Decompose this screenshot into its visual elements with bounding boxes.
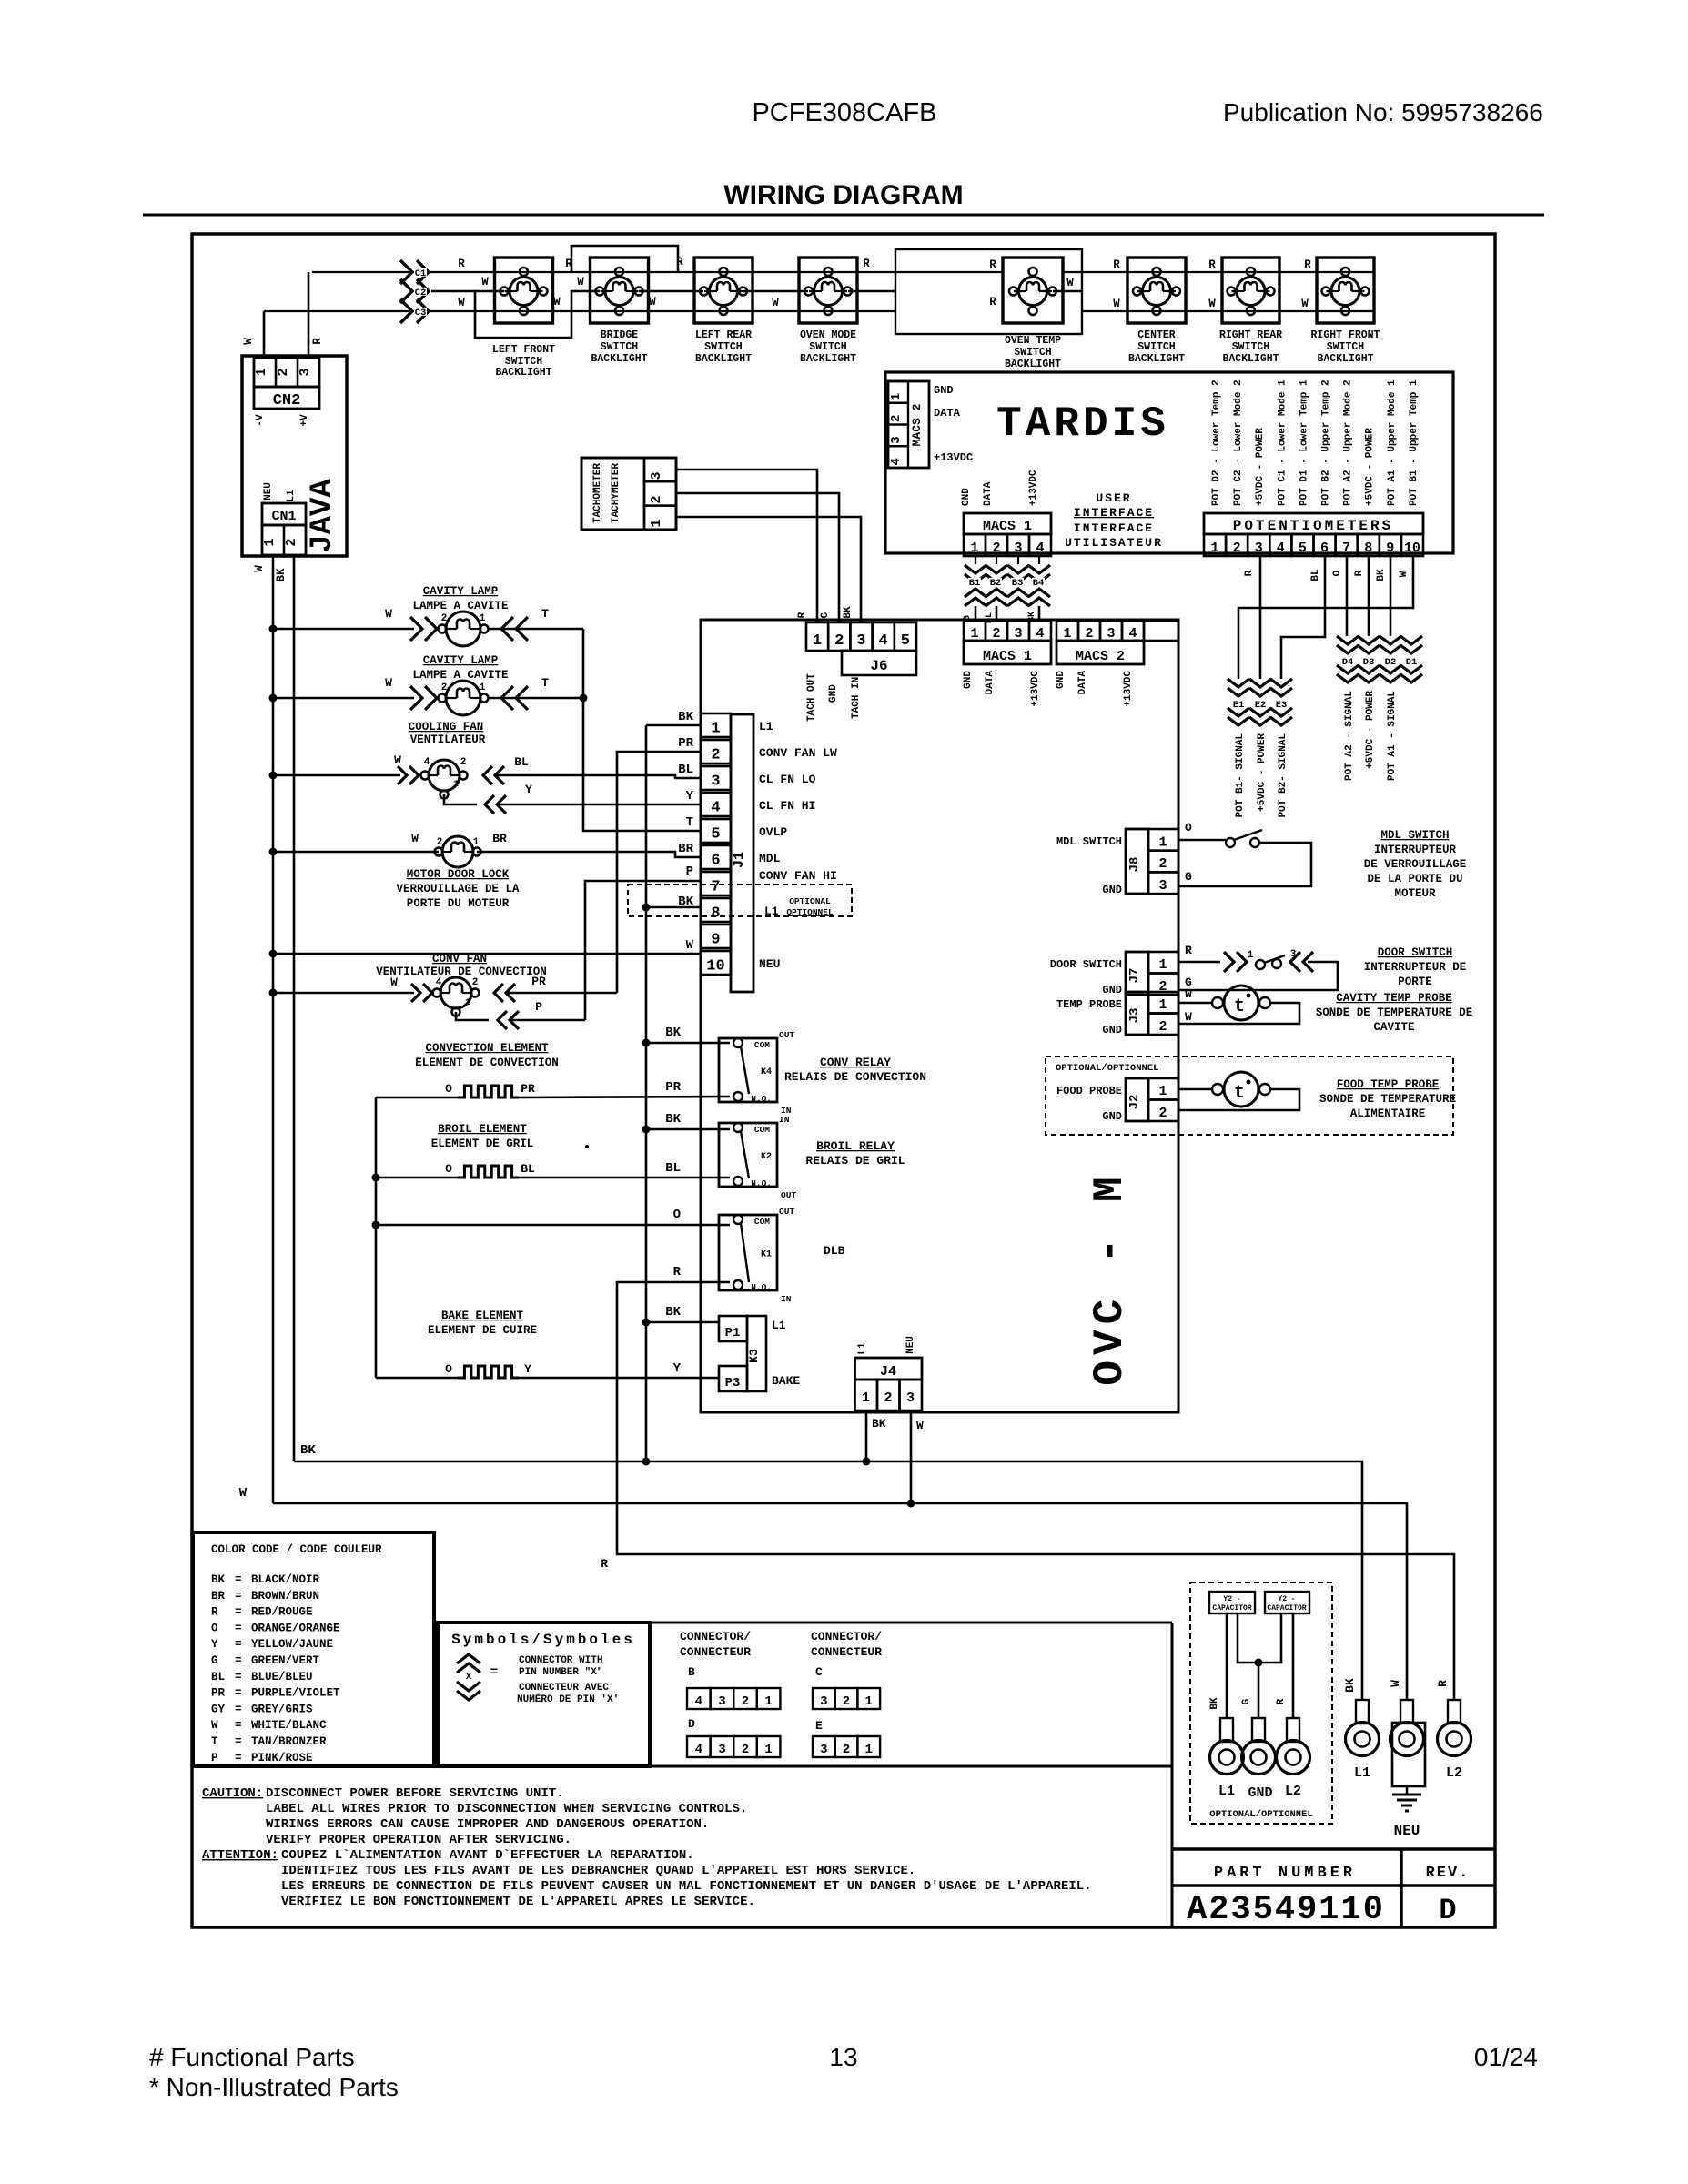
svg-text:COUPEZ L`ALIMENTATION AVANT D`: COUPEZ L`ALIMENTATION AVANT D`EFFECTUER … — [281, 1848, 694, 1863]
svg-text:T: T — [211, 1735, 218, 1748]
svg-text:1: 1 — [764, 1743, 772, 1757]
svg-text:2: 2 — [1085, 626, 1093, 642]
wire C2 tail — [431, 290, 475, 293]
svg-text:1: 1 — [254, 368, 269, 376]
svg-text:VENTILATEUR: VENTILATEUR — [410, 733, 486, 746]
color code box — [193, 1532, 434, 1766]
svg-text:R: R — [989, 258, 996, 271]
svg-text:C1: C1 — [415, 268, 427, 279]
svg-text:3: 3 — [298, 368, 313, 376]
svg-text:1: 1 — [480, 613, 486, 624]
part number box — [1172, 1847, 1495, 1851]
svg-text:N.O.: N.O. — [751, 1282, 772, 1292]
svg-text:E: E — [815, 1719, 823, 1733]
svg-text:BK: BK — [1343, 1678, 1357, 1693]
svg-text:R: R — [1113, 258, 1120, 271]
svg-text:E2: E2 — [1255, 700, 1267, 711]
svg-text:1: 1 — [764, 1694, 772, 1709]
svg-text:BACKLIGHT: BACKLIGHT — [695, 353, 752, 365]
svg-text:O: O — [445, 1162, 452, 1176]
svg-text:+5VDC - POWER: +5VDC - POWER — [1365, 691, 1376, 769]
svg-text:K4: K4 — [761, 1067, 772, 1077]
svg-text:P: P — [686, 864, 693, 879]
wire loop around oven temp switch — [895, 249, 1082, 334]
svg-text:R: R — [1244, 570, 1255, 576]
svg-text:R: R — [311, 338, 324, 345]
svg-text:=: = — [235, 1606, 242, 1619]
capacitor wires — [1226, 1613, 1228, 1718]
svg-text:CONV FAN HI: CONV FAN HI — [759, 869, 837, 883]
svg-text:PIN NUMBER "X": PIN NUMBER "X" — [519, 1667, 602, 1678]
wire T net lamps to J1 pin5 — [582, 629, 585, 698]
svg-text:W: W — [577, 276, 584, 288]
svg-text:1: 1 — [864, 1743, 872, 1757]
svg-text:CL FN LO: CL FN LO — [759, 773, 816, 786]
Y2 capacitor 2 — [1265, 1592, 1309, 1613]
svg-text:NEU: NEU — [263, 482, 274, 500]
svg-text:+13VDC: +13VDC — [934, 451, 973, 464]
svg-text:R: R — [565, 258, 572, 270]
svg-text:4: 4 — [1036, 541, 1044, 556]
svg-text:DLB: DLB — [824, 1244, 845, 1258]
svg-text:+13VDC: +13VDC — [1030, 671, 1041, 707]
connector J3 — [1126, 992, 1148, 1035]
svg-text:A23549110: A23549110 — [1187, 1891, 1385, 1929]
svg-text:DATA: DATA — [985, 671, 996, 695]
svg-text:DOOR SWITCH: DOOR SWITCH — [1050, 958, 1122, 971]
svg-text:1: 1 — [480, 682, 486, 693]
svg-text:W: W — [1113, 298, 1120, 310]
svg-text:BL: BL — [985, 612, 995, 623]
broil relay K2 — [719, 1123, 777, 1187]
svg-text:SWITCH: SWITCH — [809, 341, 847, 353]
svg-text:GND: GND — [1102, 1110, 1122, 1123]
connector J2 — [1126, 1078, 1148, 1121]
connector J7 — [1126, 952, 1148, 995]
svg-text:+5VDC - POWER: +5VDC - POWER — [1255, 428, 1266, 506]
tachometer — [581, 458, 676, 530]
svg-text:2: 2 — [460, 757, 467, 768]
svg-text:1: 1 — [711, 721, 720, 738]
svg-text:=: = — [235, 1703, 242, 1715]
svg-text:WHITE/BLANC: WHITE/BLANC — [251, 1719, 327, 1732]
right rear switch backlight — [1222, 258, 1279, 323]
svg-text:BR: BR — [211, 1590, 226, 1603]
svg-text:W: W — [772, 297, 779, 309]
svg-text:W: W — [649, 296, 656, 308]
svg-text:OVEN MODE: OVEN MODE — [800, 329, 856, 341]
svg-text:SWITCH: SWITCH — [1327, 341, 1365, 353]
svg-text:2: 2 — [1233, 541, 1241, 556]
svg-text:2: 2 — [437, 837, 443, 848]
svg-text:3: 3 — [856, 632, 865, 650]
svg-text:BK: BK — [665, 1026, 681, 1040]
svg-text:2: 2 — [884, 1390, 892, 1406]
terminal L2 main — [1448, 1700, 1461, 1724]
svg-text:USER: USER — [1096, 491, 1131, 505]
svg-text:B4: B4 — [1033, 578, 1045, 589]
svg-text:MACS 1: MACS 1 — [983, 649, 1032, 664]
svg-text:JAVA: JAVA — [306, 479, 340, 553]
svg-text:RELAIS DE GRIL: RELAIS DE GRIL — [805, 1154, 905, 1168]
svg-text:3: 3 — [649, 471, 664, 480]
connector row box — [649, 1623, 652, 1766]
svg-text:6: 6 — [711, 853, 720, 870]
svg-text:1: 1 — [970, 541, 978, 556]
svg-text:INTERRUPTEUR DE: INTERRUPTEUR DE — [1364, 961, 1467, 974]
main diagram border — [192, 234, 1495, 1927]
svg-text:R: R — [211, 1606, 218, 1619]
svg-text:CL FN HI: CL FN HI — [759, 799, 815, 813]
wire J1 pin1 BK riser — [646, 724, 701, 727]
svg-text:SWITCH: SWITCH — [704, 341, 743, 353]
svg-text:POT B1- SIGNAL: POT B1- SIGNAL — [1235, 733, 1246, 818]
svg-text:5: 5 — [1299, 541, 1307, 556]
svg-text:J7: J7 — [1127, 968, 1142, 984]
svg-text:W: W — [1208, 298, 1216, 310]
wire O to K1 — [372, 1221, 380, 1229]
svg-text:PCFE308CAFB: PCFE308CAFB — [752, 98, 936, 127]
bridge switch backlight — [591, 258, 649, 323]
svg-text:Y: Y — [686, 789, 694, 804]
svg-text:GND: GND — [1102, 984, 1122, 996]
svg-text:D: D — [688, 1717, 695, 1731]
svg-text:2: 2 — [843, 1743, 850, 1757]
wire CN2 pin1 to W bus — [263, 311, 266, 358]
svg-text:COM: COM — [754, 1217, 770, 1227]
svg-text:R: R — [863, 258, 870, 270]
svg-text:O: O — [1332, 570, 1343, 576]
svg-text:SWITCH: SWITCH — [601, 341, 639, 353]
svg-text:=: = — [235, 1752, 242, 1764]
svg-text:C3: C3 — [415, 308, 427, 318]
svg-text:=: = — [235, 1638, 242, 1651]
svg-text:K3: K3 — [747, 1349, 761, 1363]
svg-text:PR: PR — [665, 1080, 681, 1095]
svg-text:NEU: NEU — [905, 1336, 916, 1354]
svg-text:7: 7 — [1342, 541, 1350, 556]
svg-text:E1: E1 — [1233, 700, 1245, 711]
svg-text:D4: D4 — [1342, 657, 1354, 668]
svg-text:L1: L1 — [1354, 1765, 1370, 1781]
svg-text:YELLOW/JAUNE: YELLOW/JAUNE — [251, 1638, 333, 1651]
svg-text:ORANGE/ORANGE: ORANGE/ORANGE — [251, 1622, 340, 1634]
svg-text:MOTOR DOOR LOCK: MOTOR DOOR LOCK — [407, 868, 510, 881]
wire pot pin3 to E2 — [1259, 556, 1262, 679]
connector symbol legend — [457, 1654, 480, 1673]
svg-text:Publication No: 5995738266: Publication No: 5995738266 — [1223, 98, 1543, 126]
svg-text:BACKLIGHT: BACKLIGHT — [1005, 359, 1061, 370]
svg-text:13: 13 — [829, 2043, 857, 2071]
conv relay K4 — [719, 1038, 777, 1102]
svg-text:1: 1 — [889, 393, 904, 400]
svg-text:O: O — [1185, 821, 1192, 834]
oven temp switch backlight — [1003, 258, 1063, 323]
svg-text:GY: GY — [211, 1703, 226, 1715]
svg-text:GND: GND — [828, 684, 839, 703]
svg-text:J8: J8 — [1127, 857, 1142, 873]
svg-text:CONVECTION ELEMENT: CONVECTION ELEMENT — [425, 1042, 549, 1055]
wire W mid links between switches — [743, 290, 808, 293]
OVC-M board outline — [701, 620, 1178, 1412]
svg-text:FOOD TEMP PROBE: FOOD TEMP PROBE — [1337, 1078, 1440, 1091]
svg-text:2: 2 — [284, 538, 299, 546]
svg-text:3: 3 — [820, 1694, 827, 1709]
svg-text:L1: L1 — [764, 905, 779, 918]
svg-text:1: 1 — [1158, 997, 1167, 1013]
svg-text:BK: BK — [211, 1573, 226, 1586]
wire R from K1 — [617, 1282, 1454, 1700]
svg-text:BACKLIGHT: BACKLIGHT — [1222, 353, 1279, 365]
svg-text:Y: Y — [524, 1362, 531, 1376]
svg-text:WIRINGS ERRORS CAN CAUSE IMPRO: WIRINGS ERRORS CAN CAUSE IMPROPER AND DA… — [266, 1817, 709, 1832]
motor door lock — [269, 848, 278, 856]
svg-text:W: W — [1185, 1010, 1192, 1024]
svg-text:PR: PR — [211, 1687, 226, 1700]
svg-text:3: 3 — [906, 1390, 915, 1406]
svg-text:CONV FAN LW: CONV FAN LW — [759, 746, 837, 760]
svg-text:POT A1 - SIGNAL: POT A1 - SIGNAL — [1387, 691, 1398, 781]
svg-text:MDL SWITCH: MDL SWITCH — [1056, 835, 1122, 848]
terminal L1 optional — [1220, 1718, 1233, 1742]
svg-text:OVLP: OVLP — [759, 825, 787, 839]
TARDIS user interface board — [885, 372, 1453, 553]
svg-text:MDL SWITCH: MDL SWITCH — [1380, 829, 1449, 842]
svg-text:=: = — [235, 1687, 242, 1700]
svg-text:SONDE DE TEMPERATURE DE: SONDE DE TEMPERATURE DE — [1316, 1006, 1473, 1019]
svg-text:RELAIS DE CONVECTION: RELAIS DE CONVECTION — [784, 1070, 926, 1084]
svg-text:BK: BK — [1376, 569, 1387, 581]
svg-text:CAVITY LAMP: CAVITY LAMP — [423, 654, 499, 667]
svg-text:R: R — [458, 258, 465, 270]
svg-text:LEFT FRONT: LEFT FRONT — [492, 344, 555, 356]
svg-text:UTILISATEUR: UTILISATEUR — [1065, 536, 1163, 550]
wire BK to K2 — [642, 1126, 651, 1134]
svg-text:4: 4 — [878, 632, 887, 650]
svg-text:BRIDGE: BRIDGE — [601, 329, 639, 341]
svg-text:CN1: CN1 — [271, 509, 296, 524]
svg-text:R: R — [1436, 1680, 1450, 1687]
svg-text:BL: BL — [211, 1671, 225, 1683]
svg-text:ELEMENT DE CUIRE: ELEMENT DE CUIRE — [428, 1324, 537, 1337]
oven mode switch backlight — [799, 258, 857, 323]
svg-text:3: 3 — [1158, 878, 1167, 894]
svg-text:3: 3 — [820, 1743, 827, 1757]
wire J1 pin10 NEU — [273, 953, 701, 955]
svg-text:GND: GND — [1056, 671, 1066, 689]
svg-text:DATA: DATA — [1077, 671, 1088, 695]
svg-text:2: 2 — [992, 626, 1000, 642]
svg-text:CONNECTOR/: CONNECTOR/ — [680, 1630, 751, 1643]
svg-text:MOTEUR: MOTEUR — [1394, 887, 1436, 900]
svg-text:INTERRUPTEUR: INTERRUPTEUR — [1374, 844, 1457, 856]
svg-text:PR: PR — [531, 975, 546, 988]
connector MACS 2 on TARDIS — [888, 381, 929, 468]
svg-text:BL: BL — [678, 763, 693, 777]
svg-text:W: W — [481, 276, 489, 288]
svg-text:RED/ROUGE: RED/ROUGE — [251, 1606, 313, 1619]
svg-text:1: 1 — [453, 780, 459, 790]
wire J4 pin3 W — [910, 1410, 913, 1503]
svg-text:SONDE DE TEMPERATURE: SONDE DE TEMPERATURE — [1319, 1093, 1456, 1106]
svg-text:Symbols/Symboles: Symbols/Symboles — [451, 1632, 635, 1648]
svg-text:=: = — [235, 1590, 242, 1603]
svg-text:1: 1 — [1158, 835, 1167, 851]
svg-text:D3: D3 — [1363, 657, 1375, 668]
svg-text:VENTILATEUR DE CONVECTION: VENTILATEUR DE CONVECTION — [376, 966, 547, 978]
svg-text:TACHYMETER: TACHYMETER — [611, 463, 622, 523]
svg-text:CAVITY TEMP PROBE: CAVITY TEMP PROBE — [1336, 992, 1452, 1005]
svg-text:+13VDC: +13VDC — [1028, 470, 1039, 506]
svg-text:TACH OUT: TACH OUT — [806, 673, 817, 722]
wire BK to K4 — [642, 1039, 651, 1047]
svg-text:BK: BK — [665, 1112, 681, 1127]
svg-text:W: W — [239, 1486, 248, 1501]
svg-text:POT A2 - Upper Mode 2: POT A2 - Upper Mode 2 — [1343, 379, 1354, 506]
svg-text:2: 2 — [441, 682, 448, 693]
svg-text:4: 4 — [1128, 626, 1137, 642]
svg-text:3: 3 — [711, 773, 720, 791]
svg-text:TACHOMETER: TACHOMETER — [592, 463, 603, 523]
svg-text:5: 5 — [901, 632, 910, 650]
svg-text:GREY/GRIS: GREY/GRIS — [251, 1703, 313, 1715]
svg-text:G: G — [963, 615, 973, 621]
svg-text:=: = — [235, 1735, 242, 1748]
svg-text:SWITCH: SWITCH — [1232, 341, 1270, 353]
svg-text:1: 1 — [813, 632, 822, 650]
wire W neutral bottom — [273, 1503, 1407, 1700]
svg-text:ATTENTION:: ATTENTION: — [202, 1848, 278, 1863]
wire R bus top — [312, 271, 1003, 273]
svg-text:CONNECTOR WITH: CONNECTOR WITH — [519, 1655, 602, 1666]
symbols box — [438, 1623, 650, 1766]
svg-text:W: W — [411, 832, 419, 845]
svg-text:MACS 1: MACS 1 — [983, 519, 1032, 534]
connector J4 — [855, 1358, 923, 1380]
svg-text:E3: E3 — [1276, 700, 1288, 711]
svg-text:2: 2 — [742, 1694, 749, 1709]
svg-text:POT A2 - SIGNAL: POT A2 - SIGNAL — [1344, 691, 1355, 781]
connector MACS 2 on board — [1056, 621, 1078, 641]
svg-text:W: W — [1389, 1680, 1402, 1687]
svg-text:CONNECTEUR: CONNECTEUR — [680, 1645, 751, 1659]
svg-text:IN: IN — [779, 1115, 790, 1125]
svg-text:POT A1 - Upper Mode 1: POT A1 - Upper Mode 1 — [1387, 379, 1398, 506]
svg-text:10: 10 — [706, 958, 724, 976]
svg-text:3: 3 — [718, 1694, 725, 1709]
svg-text:SWITCH: SWITCH — [1014, 347, 1052, 359]
svg-text:W: W — [458, 297, 465, 309]
svg-text:BK: BK — [1209, 1697, 1220, 1710]
svg-text:PORTE: PORTE — [1398, 976, 1432, 988]
svg-text:O: O — [673, 1208, 681, 1222]
svg-text:Y2 -: Y2 - — [1278, 1595, 1295, 1603]
svg-text:NEU: NEU — [759, 957, 780, 971]
svg-text:BK: BK — [843, 606, 854, 619]
svg-text:VERIFY PROPER OPERATION AFTER: VERIFY PROPER OPERATION AFTER SERVICING. — [266, 1833, 571, 1847]
svg-text:J6: J6 — [870, 658, 887, 674]
connector J8 — [1126, 829, 1148, 894]
svg-text:CAVITE: CAVITE — [1373, 1021, 1414, 1034]
svg-text:OUT: OUT — [779, 1207, 794, 1217]
svg-text:W: W — [253, 565, 266, 572]
svg-text:J4: J4 — [880, 1364, 896, 1380]
svg-text:2: 2 — [441, 613, 448, 624]
wire J4 pin1 BK — [865, 1410, 868, 1461]
svg-text:TEMP PROBE: TEMP PROBE — [1056, 998, 1122, 1011]
svg-text:W: W — [686, 938, 694, 953]
svg-text:3: 3 — [1014, 626, 1022, 642]
JAVA board — [242, 356, 347, 556]
svg-text:GREEN/VERT: GREEN/VERT — [251, 1654, 320, 1667]
svg-text:4: 4 — [1036, 626, 1044, 642]
svg-text:7: 7 — [711, 879, 720, 896]
svg-text:N.O.: N.O. — [751, 1094, 772, 1104]
svg-text:4: 4 — [436, 977, 442, 988]
connectors E1 E2 E3 — [1228, 679, 1249, 696]
wire pot pin6 to E3 — [1281, 556, 1325, 679]
POTENTIOMETERS connector — [1204, 513, 1423, 534]
svg-text:BROIL ELEMENT: BROIL ELEMENT — [438, 1123, 527, 1136]
wire pot pin8 to D3 — [1368, 556, 1370, 636]
svg-text:BLACK/NOIR: BLACK/NOIR — [251, 1573, 320, 1586]
svg-text:BR: BR — [492, 832, 507, 845]
wire BK rail from CN1 pin2 — [293, 555, 296, 1461]
svg-text:Y2 -: Y2 - — [1223, 1595, 1240, 1603]
terminal L1 main — [1356, 1700, 1369, 1724]
svg-text:ALIMENTAIRE: ALIMENTAIRE — [1350, 1107, 1426, 1120]
svg-text:BACKLIGHT: BACKLIGHT — [1317, 353, 1373, 365]
svg-text:R: R — [1354, 570, 1365, 576]
svg-text:D2: D2 — [1385, 657, 1397, 668]
svg-text:L1: L1 — [1218, 1784, 1235, 1799]
wire W mid link under left front switch — [475, 291, 600, 338]
svg-text:L2: L2 — [1446, 1765, 1462, 1781]
svg-text:B2: B2 — [990, 578, 1002, 589]
svg-text:3: 3 — [718, 1743, 725, 1757]
svg-text:=: = — [235, 1573, 242, 1586]
svg-text:5: 5 — [711, 826, 720, 844]
svg-text:W: W — [1066, 277, 1074, 289]
svg-text:COLOR CODE / CODE COULEUR: COLOR CODE / CODE COULEUR — [211, 1543, 382, 1556]
svg-text:GND: GND — [1102, 884, 1122, 896]
svg-text:P: P — [535, 1000, 542, 1014]
svg-text:COOLING FAN: COOLING FAN — [409, 721, 484, 733]
svg-text:1: 1 — [473, 837, 480, 848]
svg-text:BK: BK — [1027, 612, 1037, 622]
svg-text:BL: BL — [514, 755, 529, 769]
connector C2 — [400, 279, 429, 303]
DLB relay K1 — [719, 1215, 777, 1290]
svg-text:POT B1 - Upper Temp 1: POT B1 - Upper Temp 1 — [1409, 379, 1420, 506]
svg-text:1: 1 — [970, 626, 978, 642]
svg-text:-V: -V — [255, 414, 266, 427]
wire PR riser to J1 pin2 — [617, 752, 701, 993]
svg-text:POT C2 - Lower Mode 2: POT C2 - Lower Mode 2 — [1233, 379, 1244, 506]
svg-text:L1: L1 — [857, 1342, 868, 1355]
svg-text:T: T — [541, 676, 549, 690]
svg-text:BLUE/BLEU: BLUE/BLEU — [251, 1671, 313, 1683]
svg-text:OPTIONAL: OPTIONAL — [789, 896, 831, 906]
svg-text:R: R — [673, 1265, 682, 1279]
svg-text:2: 2 — [742, 1743, 749, 1757]
svg-text:VERIFIEZ LE BON FONCTIONNEMENT: VERIFIEZ LE BON FONCTIONNEMENT DE L'APPA… — [281, 1895, 755, 1909]
svg-text:R: R — [1276, 1698, 1287, 1704]
svg-text:W: W — [916, 1419, 924, 1432]
connector CN2 — [254, 358, 319, 387]
svg-text:2: 2 — [889, 415, 904, 422]
svg-text:1: 1 — [465, 998, 470, 1008]
